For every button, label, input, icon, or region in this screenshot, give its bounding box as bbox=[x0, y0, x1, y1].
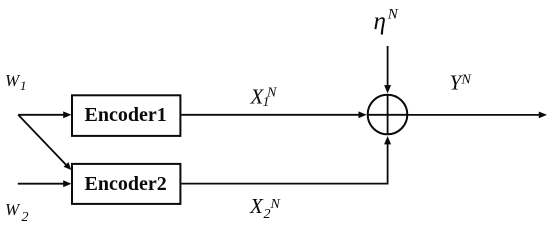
node eta^N label bbox=[374, 7, 399, 36]
wire X2: Encoder2 output, right then up to adder bbox=[181, 136, 391, 184]
svg-text:N: N bbox=[266, 86, 277, 101]
svg-text:Encoder1: Encoder1 bbox=[85, 104, 167, 126]
node X1^N label bbox=[250, 85, 278, 111]
svg-text:Encoder2: Encoder2 bbox=[85, 173, 167, 195]
node W1 label bbox=[5, 71, 27, 93]
svg-text:N: N bbox=[461, 73, 472, 88]
svg-text:η: η bbox=[374, 8, 386, 35]
node W2 label bbox=[5, 200, 29, 225]
node X2^N label bbox=[249, 194, 281, 222]
wire output Y^N bbox=[408, 112, 547, 119]
svg-text:X: X bbox=[249, 194, 264, 218]
wire noise eta^N into adder (vertical) bbox=[384, 46, 391, 93]
svg-text:2: 2 bbox=[22, 210, 29, 225]
wire X1: Encoder1 output to adder bbox=[181, 111, 366, 118]
block Encoder1 bbox=[72, 95, 180, 136]
svg-text:N: N bbox=[270, 197, 281, 212]
svg-text:N: N bbox=[387, 7, 399, 23]
svg-text:1: 1 bbox=[20, 78, 27, 93]
svg-text:W: W bbox=[5, 200, 21, 219]
adder plus sign bbox=[367, 95, 408, 135]
adder circle (sum node) bbox=[368, 95, 408, 135]
svg-text:W: W bbox=[5, 71, 21, 90]
wire W2 to Encoder2 (horizontal) bbox=[18, 180, 72, 187]
block Encoder2 bbox=[72, 164, 180, 204]
wire W1 fork to Encoder1 (horizontal) bbox=[18, 111, 71, 118]
node Y^N label bbox=[450, 71, 472, 95]
wire W1 fork to Encoder2 (diagonal) bbox=[18, 115, 71, 170]
svg-text:2: 2 bbox=[264, 207, 271, 222]
